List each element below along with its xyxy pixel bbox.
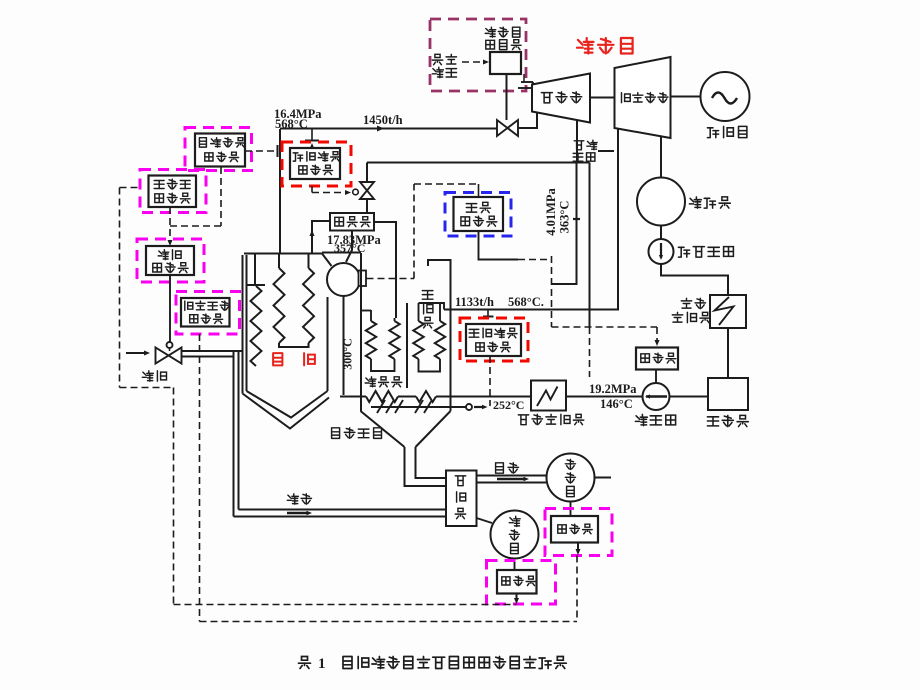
svg-text:1450t/h: 1450t/h: [363, 113, 403, 127]
extraction line 4.01MPa down: [552, 163, 577, 285]
wall superheater coil: [247, 254, 265, 367]
shaft LP to generator: [671, 96, 702, 98]
label 汽轮机调速器 (turbine governor): [485, 27, 521, 49]
tap tick on extraction line: [573, 218, 580, 220]
box FD-fan 调节器: [497, 570, 537, 594]
label 19.2MPa: [589, 382, 637, 396]
red title 汽轮机 (steam turbine): [577, 38, 633, 54]
svg-text:568°C.: 568°C.: [508, 295, 544, 309]
label 16.4MPa: [274, 107, 322, 121]
arrow below ID-fan 调节器: [575, 543, 580, 556]
extraction line to feed-pump turbine (至给水泵) horizontal: [367, 162, 590, 164]
magenta dashed box 燃料调节器: [137, 239, 204, 282]
wire feed pump to deaerator: [670, 396, 709, 398]
dashed 炉膛负压 to ID-fan regulator loop: [200, 334, 578, 622]
arrow steam temp measurement into regulator: [309, 143, 314, 149]
sensor tick on reheat line: [483, 310, 494, 317]
generator 发电机 circle with sine: [701, 72, 750, 121]
condenser 冷凝器: [637, 178, 685, 226]
reheat steam line 1133t/h to IP cylinder: [444, 129, 618, 310]
furnace roof: [244, 253, 361, 254]
rear pass roof: [428, 260, 451, 411]
LP heater 低压加热器 box with zigzag: [710, 295, 746, 328]
label FD-fan 调节器: [502, 576, 536, 585]
dashed 蒸汽压力 to 燃料调节器: [170, 167, 221, 226]
furnace ash hopper: [243, 391, 330, 429]
magenta dashed box ID-fan 调节器: [545, 509, 612, 556]
drum level gauge tab: [359, 271, 367, 287]
main steam riser from superheater: [279, 129, 281, 254]
reheater coils 1-2 bottom connect: [371, 359, 395, 371]
label 冷凝器: [689, 197, 730, 208]
svg-text:1: 1: [318, 656, 326, 672]
wire valve to HP cylinder inlet: [518, 113, 537, 128]
platen coil A: [274, 254, 285, 344]
label 146C: [600, 397, 633, 411]
HP heater 高压加热器 box with zigzag: [531, 381, 566, 411]
dashed arrow 功率给定 to governor: [462, 59, 489, 64]
label 蒸汽压力调节器: [199, 138, 245, 162]
label 过热汽温调节器: [293, 152, 340, 175]
label 4.01MPa rotated: [544, 187, 558, 235]
air duct risers at left: [234, 351, 239, 517]
label 水位调节器: [461, 202, 497, 226]
label 300C rotated: [341, 338, 355, 369]
wire ID fan to its regulator: [570, 502, 572, 517]
label 252C: [493, 398, 524, 412]
boiler drum circle: [327, 263, 360, 296]
label 功率给定 (power setpoint): [432, 54, 456, 77]
damper hatch group 1: [377, 400, 403, 413]
pilot circle at spray valve: [353, 189, 359, 195]
label 炉膛负压调节器: [185, 301, 230, 323]
magenta dashed box 炉膛负压调节器: [176, 292, 240, 335]
label 减温器: [335, 217, 370, 227]
magenta dashed box FD-fan 调节器: [487, 561, 556, 605]
blue dashed box 水位调节器: [445, 193, 511, 237]
label 高压加热器: [518, 414, 584, 424]
deaerator 除氧器 box: [708, 378, 748, 410]
valve actuator link to HP cylinder: [518, 74, 533, 88]
wire 燃料调节器 to fuel valve: [169, 275, 171, 342]
magenta dashed box 蒸汽压力调节器: [185, 128, 252, 171]
label 568C: [275, 117, 308, 131]
caption 图1 锅炉汽轮机组的基本调节系统示意: [299, 656, 567, 672]
label 除氧器: [707, 415, 748, 426]
dashed 过热汽温调节器 to spray valve: [312, 186, 351, 195]
dashed 空气量 output to left loop: [120, 187, 141, 189]
platen outlet pipe to desuperheater: [309, 221, 330, 254]
fuel supply arrow: [126, 350, 150, 355]
label 烟气挡板: [332, 428, 382, 439]
downcomer channel wall left: [343, 296, 345, 395]
label 凝结水泵: [678, 247, 733, 258]
furnace left wall outer: [242, 255, 244, 394]
label 568C.: [508, 295, 544, 309]
wire governor to throttle valve: [506, 74, 508, 120]
label ID-fan 调节器: [558, 524, 592, 534]
box 空气量调节器: [149, 176, 197, 208]
rear pass partition wall: [406, 303, 408, 388]
flue duct arrow: [497, 477, 529, 482]
platen coils bottom connect: [279, 343, 309, 347]
rear pass funnel: [361, 411, 451, 447]
label 送风机 vertical: [509, 516, 520, 553]
label 再热汽温调节器: [469, 328, 517, 352]
downcomer channel wall right: [360, 253, 362, 411]
box ID-fan 调节器: [551, 516, 598, 543]
red dashed box 过热汽温调节器: [282, 142, 351, 186]
flue gas damper line: [371, 406, 466, 408]
label 调节器 feedwater: [641, 353, 676, 363]
red title 锅炉 (boiler): [273, 353, 315, 365]
label 1450t/h: [363, 113, 403, 127]
wire 调节器 to feed pump: [655, 370, 657, 384]
hot reheat header: [419, 303, 445, 310]
box 过热汽温调节器: [290, 148, 340, 179]
fuel line to furnace: [182, 351, 243, 357]
fuel valve pilot circle: [167, 342, 173, 348]
label 17.83MPa: [327, 233, 382, 247]
svg-text:4.01MPa: 4.01MPa: [544, 187, 558, 235]
reheater coils 3-4 bottom connect: [419, 359, 441, 372]
wire HP exhaust down: [576, 120, 578, 163]
box 蒸汽压力调节器: [195, 134, 245, 167]
wire desuperheater to drum: [346, 231, 352, 263]
label 预热器 vertical: [455, 476, 465, 519]
flue channel to air preheater: [405, 447, 447, 486]
riser furnace to drum: [322, 254, 332, 267]
dashed feedwater control line: [552, 256, 660, 346]
main steam line 16.4MPa to valve: [280, 126, 497, 132]
damper hatch group 2: [415, 400, 432, 413]
wire desuperheater to secondary superheater: [374, 222, 396, 318]
wire spray valve to desuperheater: [366, 199, 368, 213]
svg-text:252°C: 252°C: [493, 398, 524, 412]
box 调节器 (feedwater regulator): [636, 348, 678, 370]
shaft HP to IP/LP cylinder: [590, 97, 615, 99]
box turbine governor: [490, 52, 521, 74]
label 烟气: [496, 463, 519, 473]
label 燃料调节器: [153, 250, 188, 273]
condensate pump 凝结水泵: [649, 239, 674, 264]
label 至给水泵: [573, 140, 614, 161]
furnace right wall: [327, 297, 329, 391]
platen coil B: [303, 254, 314, 344]
flue duct preheater to ID fan: [477, 476, 547, 483]
dashed line drum gauge to 水位调节器: [367, 184, 479, 279]
label 低压加热器: [672, 298, 710, 322]
red dashed box 再热汽温调节器: [460, 318, 528, 361]
ID fan 引风机 circle: [547, 454, 595, 502]
label 357C: [334, 241, 365, 255]
label 发电机: [707, 126, 747, 137]
label 给水泵: [635, 414, 675, 425]
svg-text:146°C: 146°C: [600, 397, 633, 411]
dashed ID-fan control from furnace-pressure regulator: [576, 556, 578, 622]
dashed drop to feed line: [589, 327, 591, 377]
feed pump 给水泵: [643, 383, 670, 410]
dashed 空气量 to FD-fan regulator loop: [120, 188, 517, 605]
wire condensate pump to LP heater: [661, 264, 728, 295]
HP cylinder 高压缸: [532, 74, 590, 123]
arrow sensor to regulator line: [474, 405, 488, 410]
label 燃料: [142, 371, 166, 381]
dashed 蒸汽压力 measurement tap: [245, 145, 278, 157]
dashed 再热汽温调节器 to gas damper sensor: [489, 356, 491, 406]
box 燃料调节器: [146, 246, 194, 275]
wire condenser to condensate pump: [660, 226, 662, 240]
box 再热汽温调节器: [466, 324, 521, 356]
air preheater 预热器 box: [446, 471, 477, 527]
box 炉膛负压调节器: [181, 298, 230, 327]
dashed+arrow into 燃料调节器: [167, 207, 172, 246]
economizer coils on feed line: [340, 391, 531, 402]
dashed maroon box around turbine governor: [430, 19, 526, 91]
throttle valve on main steam line: [497, 120, 518, 136]
FD fan 送风机 circle: [477, 511, 539, 559]
label 再热器 vertical: [422, 291, 433, 328]
desuperheater 减温器 box: [330, 213, 374, 231]
label 引风机 vertical: [565, 459, 575, 496]
furnace left wall inner: [246, 255, 248, 391]
ID fan outlet: [595, 477, 612, 479]
svg-text:363°C: 363°C: [558, 201, 572, 234]
magenta dashed box 空气量调节器: [140, 170, 206, 213]
svg-text:19.2MPa: 19.2MPa: [589, 382, 637, 396]
label 1133t/h: [455, 295, 494, 309]
arrow below FD-fan 调节器: [514, 594, 519, 605]
svg-text:1133t/h: 1133t/h: [455, 295, 494, 309]
reheater coil 2: [389, 318, 399, 359]
box 水位调节器: [454, 197, 504, 231]
svg-text:568°C: 568°C: [275, 117, 308, 131]
label 363C rotated: [558, 201, 572, 234]
label 空气量调节器: [154, 179, 190, 203]
feedwater line pump to HP heater: [566, 396, 643, 398]
svg-text:300°C: 300°C: [341, 338, 355, 369]
label 省煤器: [365, 377, 402, 387]
wire 水位调节器 output: [479, 231, 552, 260]
forced air duct: [234, 510, 447, 517]
wire LP heater to deaerator: [727, 328, 729, 378]
sensor circle 252C: [466, 404, 472, 410]
wire LP cylinder to condenser: [660, 137, 662, 178]
reheater coil 4: [435, 303, 445, 359]
reheater coil 3: [413, 303, 423, 359]
label 送风: [287, 494, 311, 504]
wire cold-reheat vertical: [589, 163, 591, 328]
forced air duct arrow: [287, 511, 312, 516]
IP/LP cylinder 中低压缸: [615, 57, 671, 138]
spray water line from feed line: [366, 163, 368, 183]
reheater coil 1: [361, 310, 376, 359]
wire FD fan to its regulator: [514, 559, 516, 571]
spray water valve: [360, 182, 374, 199]
fuel valve: [156, 348, 182, 364]
sensor tee below steam line: [305, 129, 319, 141]
